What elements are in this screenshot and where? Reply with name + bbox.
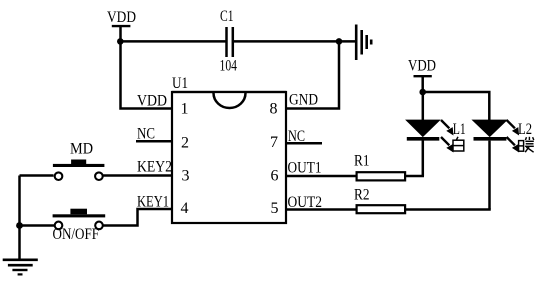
switch MD — [53, 141, 105, 181]
junction dot at GND branch — [336, 38, 343, 45]
resistor R2 — [357, 205, 406, 213]
svg-text:7: 7 — [270, 134, 278, 151]
wire VDD rail right segment — [233, 40, 355, 43]
svg-text:KEY2: KEY2 — [137, 159, 172, 176]
wire R2 to L2 — [406, 208, 491, 211]
wire OUT1 to R1 — [286, 175, 356, 178]
wire from rail to IC pin 8 — [286, 41, 339, 108]
svg-text:OUT1: OUT1 — [288, 160, 322, 177]
svg-text:L2: L2 — [518, 121, 532, 138]
capacitor C1 — [220, 8, 238, 75]
wire left rail vertical — [18, 176, 21, 260]
svg-text:R2: R2 — [354, 187, 370, 204]
svg-text:MD: MD — [70, 141, 93, 158]
junction dot left rail — [16, 222, 23, 229]
svg-text:8: 8 — [270, 101, 278, 118]
svg-text:VDD: VDD — [408, 58, 436, 75]
svg-text:NC: NC — [137, 126, 155, 143]
LED L2 — [473, 120, 519, 153]
svg-text:C1: C1 — [220, 8, 234, 25]
wire KEY2 row to switch MD — [104, 174, 173, 177]
wire MD to left rail — [20, 174, 54, 177]
junction dot right VDD — [419, 89, 426, 96]
label 白 (white) drawn — [453, 137, 464, 151]
ground (top right, horizontal) — [356, 25, 371, 61]
svg-text:VDD: VDD — [137, 93, 167, 110]
svg-text:R1: R1 — [354, 153, 370, 170]
switch ON/OFF — [53, 209, 106, 243]
wire OUT2 to R2 — [286, 208, 356, 211]
op IC U1 body — [172, 92, 286, 223]
power VDD (top left) — [107, 9, 136, 41]
power VDD (right) — [408, 58, 436, 93]
wire L2 cathode down to R2 — [488, 141, 491, 210]
svg-text:5: 5 — [271, 200, 279, 217]
svg-text:ON/OFF: ON/OFF — [53, 226, 100, 243]
svg-text:1: 1 — [181, 101, 189, 118]
wire ON/OFF to left rail — [20, 224, 55, 227]
wire R1 to L1 — [406, 175, 424, 178]
svg-text:4: 4 — [181, 200, 189, 217]
LED L1 — [407, 120, 454, 153]
stub NC pin 7 — [287, 142, 322, 145]
wire VDD rail left segment — [121, 40, 227, 43]
wire L1 cathode down to R1 — [422, 139, 425, 176]
stub NC pin 2 — [136, 140, 172, 143]
label 暖 (warm) drawn — [519, 137, 534, 152]
wire VDD to L2 branch — [423, 92, 490, 121]
ground (bottom left) — [3, 260, 38, 275]
svg-text:GND: GND — [289, 92, 318, 109]
svg-text:L1: L1 — [453, 121, 466, 138]
svg-text:3: 3 — [182, 168, 190, 185]
svg-text:104: 104 — [220, 58, 238, 75]
wire KEY1 row to switch ON/OFF — [104, 209, 173, 226]
junction dot at VDD rail — [117, 38, 124, 45]
svg-text:VDD: VDD — [107, 9, 136, 26]
wire from rail to IC pin 1 — [121, 41, 173, 108]
svg-text:6: 6 — [271, 168, 279, 185]
resistor R1 — [357, 172, 406, 180]
svg-text:U1: U1 — [172, 75, 188, 92]
svg-text:2: 2 — [181, 135, 189, 152]
wire VDD down to L1 — [422, 92, 425, 121]
